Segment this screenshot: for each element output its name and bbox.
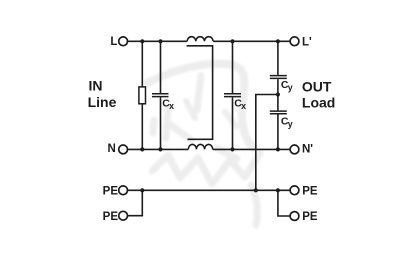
svg-text:N': N' xyxy=(302,143,313,155)
node N-R1 xyxy=(140,147,144,151)
wire PE2 right branch xyxy=(278,190,290,216)
svg-text:OUT: OUT xyxy=(302,79,332,95)
terminal PE bottom-right xyxy=(290,212,299,221)
wire Cy midpoint to PE xyxy=(256,95,278,191)
wire L line right xyxy=(213,40,290,42)
node PE-right xyxy=(276,188,280,192)
svg-text:PE: PE xyxy=(302,186,318,198)
svg-text:L: L xyxy=(110,36,117,48)
wire Cx1 branch bottom xyxy=(160,97,162,149)
wire Cx2 branch bottom xyxy=(232,97,234,149)
svg-text:IN: IN xyxy=(89,77,103,93)
inductor L1 core xyxy=(187,46,213,140)
node N-Cy xyxy=(276,147,280,151)
node N-Cx2 xyxy=(230,147,234,151)
inductor L1 top winding xyxy=(187,37,213,42)
node Cy midpoint xyxy=(276,92,280,96)
capacitor Cy2 plates xyxy=(270,111,287,114)
terminal N' xyxy=(290,145,299,154)
wire Cy branch bottom xyxy=(277,115,279,150)
node PE-Cy xyxy=(254,188,258,192)
node PE-left xyxy=(140,188,144,192)
watermark logo xyxy=(147,64,260,225)
svg-text:Line: Line xyxy=(88,94,117,110)
wire N line left xyxy=(128,148,189,150)
svg-text:PE: PE xyxy=(103,211,119,223)
wire Cy branch middle xyxy=(277,79,279,110)
svg-text:N: N xyxy=(107,143,115,155)
terminal PE top-right xyxy=(290,186,299,195)
wire N line right xyxy=(213,148,290,150)
terminal L xyxy=(119,37,128,46)
node L-Cx2 xyxy=(230,39,234,43)
terminal PE bottom-left xyxy=(119,211,128,220)
svg-text:Load: Load xyxy=(302,94,335,110)
node junction dots xyxy=(140,39,280,192)
resistor R1 xyxy=(139,87,146,104)
wire resistor branch bottom xyxy=(141,104,143,150)
wire Cx2 branch top xyxy=(232,41,234,93)
terminal N xyxy=(119,145,128,154)
node L-Cx1 xyxy=(158,39,162,43)
svg-text:PE: PE xyxy=(103,186,119,198)
node L-Cy xyxy=(276,39,280,43)
wire Cy branch top xyxy=(277,41,279,75)
terminal PE top-left xyxy=(119,186,128,195)
wire L line left xyxy=(128,40,188,42)
node N-Cx1 xyxy=(158,147,162,151)
wire PE2 left branch xyxy=(128,190,143,215)
wire resistor branch top xyxy=(141,41,143,87)
inductor L1 bottom winding xyxy=(188,144,212,149)
terminal L' xyxy=(290,37,299,46)
wire Cx1 branch top xyxy=(160,41,162,93)
svg-text:PE: PE xyxy=(302,211,318,223)
capacitor Cy1 plates xyxy=(270,76,287,79)
wire PE line xyxy=(128,189,291,191)
node L-R1 xyxy=(140,39,144,43)
capacitor Cx1 plates xyxy=(152,94,169,97)
svg-text:L': L' xyxy=(302,36,312,48)
capacitor Cx2 plates xyxy=(224,94,241,97)
